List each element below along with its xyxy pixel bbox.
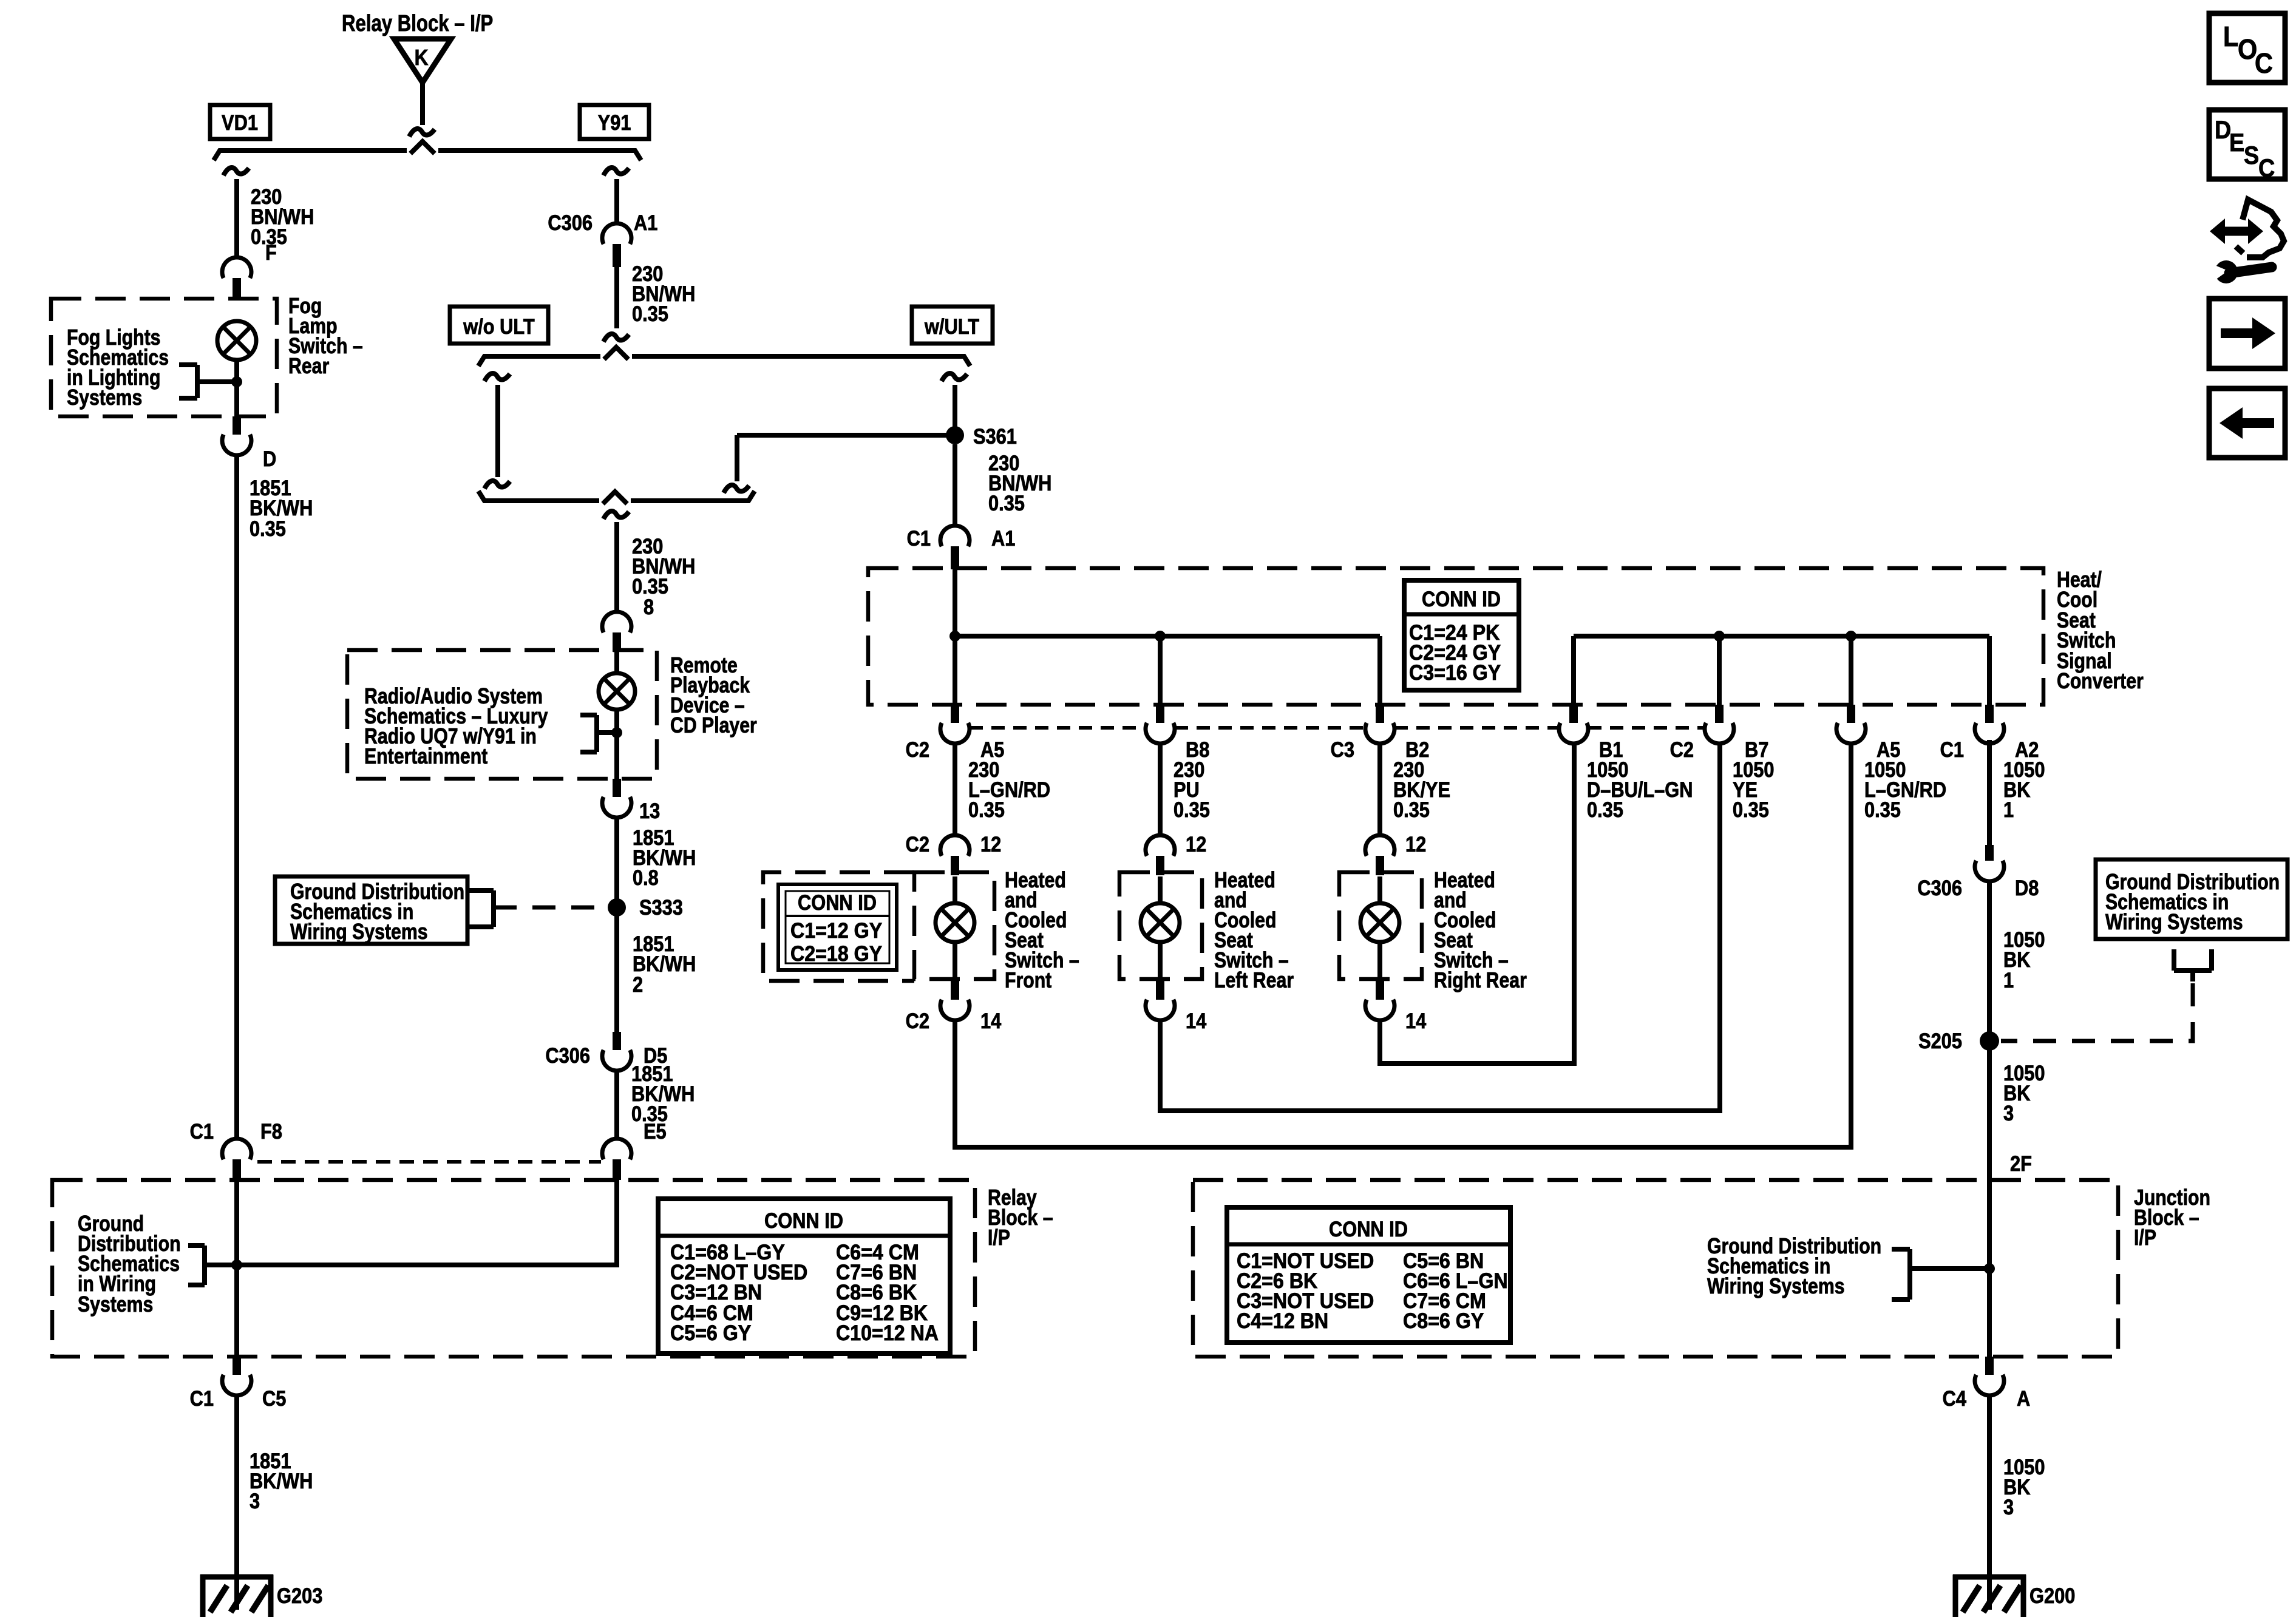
svg-text:Relay Block – I/P: Relay Block – I/P bbox=[342, 11, 493, 36]
svg-text:3: 3 bbox=[2003, 1101, 2014, 1125]
connector C306/D8 pin bbox=[1985, 845, 1994, 861]
connector D arc bbox=[222, 435, 251, 455]
wire D5 to E5 bbox=[614, 1071, 619, 1137]
svg-text:C2=18 GY: C2=18 GY bbox=[790, 943, 882, 966]
connector C1/F8 arc bbox=[222, 1139, 251, 1159]
hook above wo-ULT bus bbox=[603, 334, 629, 342]
seat switch lamp Right Rear bbox=[1360, 903, 1399, 942]
connector C306/D8 arc bbox=[1975, 861, 2004, 881]
wire F8 inside relay block bbox=[234, 1180, 239, 1357]
svg-text:C5: C5 bbox=[262, 1386, 286, 1410]
wire Y91 branch down bbox=[614, 179, 619, 222]
svg-text:C: C bbox=[2255, 48, 2273, 80]
svg-text:13: 13 bbox=[639, 799, 660, 822]
hook VD1 branch bbox=[223, 168, 249, 175]
svg-text:0.8: 0.8 bbox=[633, 866, 659, 889]
svg-text:C3=12 BN: C3=12 BN bbox=[670, 1281, 762, 1305]
wire S361 branch left bbox=[737, 433, 955, 438]
merge bus w/o ULT bbox=[488, 498, 599, 503]
connector 12 arc bbox=[1365, 835, 1394, 856]
connector pin B8 (converter) bbox=[1156, 705, 1164, 723]
svg-text:0.35: 0.35 bbox=[632, 302, 668, 325]
heated seat switch box Front bbox=[914, 872, 994, 979]
connector E5 arc bbox=[602, 1139, 631, 1159]
junction block dashed box bbox=[1193, 1180, 2118, 1357]
wire into lamp Left Rear bbox=[1158, 876, 1163, 903]
svg-text:S205: S205 bbox=[1918, 1029, 1962, 1053]
svg-text:C8=6 BK: C8=6 BK bbox=[836, 1281, 917, 1305]
CONN ID table (relay) bbox=[658, 1199, 950, 1354]
svg-text:CD Player: CD Player bbox=[670, 714, 757, 738]
fog lamp indicator bbox=[217, 321, 256, 360]
fog lamp switch dashed box bbox=[51, 299, 277, 416]
connector 13 pin bbox=[613, 779, 621, 797]
svg-text:L: L bbox=[2223, 21, 2238, 53]
connector C306/D5 pin bbox=[613, 1032, 621, 1050]
svg-text:14: 14 bbox=[1405, 1009, 1427, 1032]
wire into lamp Right Rear bbox=[1377, 876, 1382, 903]
wire S361 down to C1/A1 bbox=[953, 444, 957, 524]
svg-text:C2: C2 bbox=[906, 832, 929, 856]
svg-text:E: E bbox=[2229, 129, 2244, 157]
svg-text:0.35: 0.35 bbox=[1733, 798, 1769, 821]
connector C4/A pin bbox=[1985, 1357, 1994, 1375]
svg-text:Y91: Y91 bbox=[598, 110, 631, 134]
icon arrow right bbox=[2209, 299, 2285, 368]
wire into CD lamp bbox=[614, 651, 619, 673]
svg-text:D8: D8 bbox=[2015, 876, 2039, 900]
CONN ID dashed box (switch) bbox=[763, 872, 914, 981]
svg-text:2: 2 bbox=[633, 972, 643, 996]
ground G203 bbox=[200, 1575, 273, 1580]
wire lamp to node bbox=[234, 360, 239, 416]
wire A to G200 bbox=[1987, 1395, 1992, 1610]
wire B7 drop bbox=[1717, 636, 1722, 705]
svg-text:Rear: Rear bbox=[288, 354, 329, 379]
reference bracket CD bbox=[594, 715, 599, 752]
svg-text:I/P: I/P bbox=[988, 1226, 1010, 1250]
splice S205 bbox=[1980, 1031, 1999, 1051]
wire B1 drop bbox=[1571, 636, 1576, 705]
svg-text:CONN ID: CONN ID bbox=[798, 890, 877, 914]
hook right w/ULT branch bbox=[942, 373, 967, 381]
svg-text:Systems: Systems bbox=[67, 386, 142, 410]
hook above merge bus right bbox=[724, 485, 749, 493]
svg-text:Wiring Systems: Wiring Systems bbox=[2105, 910, 2243, 935]
connector F pin bbox=[233, 278, 241, 300]
svg-text:C1: C1 bbox=[907, 526, 931, 550]
svg-text:12: 12 bbox=[1186, 832, 1206, 856]
wire to seat switch bbox=[1158, 744, 1163, 833]
svg-text:G200: G200 bbox=[2029, 1584, 2075, 1607]
junction dot fog switch bbox=[231, 376, 242, 387]
svg-text:C3: C3 bbox=[1331, 737, 1354, 761]
wire A5 drop bbox=[1849, 636, 1853, 705]
wire into lamp Front bbox=[953, 876, 957, 903]
svg-text:14: 14 bbox=[1186, 1009, 1207, 1032]
wire lamp to pin Left Rear bbox=[1158, 942, 1163, 979]
heated seat switch box Left Rear bbox=[1119, 872, 1202, 979]
svg-text:C2: C2 bbox=[906, 737, 929, 761]
left stub wire bbox=[495, 385, 500, 477]
svg-text:C2: C2 bbox=[1670, 737, 1694, 761]
wire left rear switch return bbox=[1160, 744, 1720, 1111]
connector 13 arc bbox=[602, 797, 631, 818]
svg-text:0.35: 0.35 bbox=[988, 491, 1025, 515]
connector C1/C5 arc bbox=[222, 1375, 251, 1395]
dotted line F8-E5 bbox=[257, 1160, 601, 1164]
svg-text:S: S bbox=[2244, 141, 2259, 169]
svg-text:Wiring Systems: Wiring Systems bbox=[1707, 1275, 1845, 1299]
connector C306/D5 arc bbox=[602, 1050, 631, 1071]
svg-text:Systems: Systems bbox=[78, 1293, 153, 1317]
connector 12 arc bbox=[1146, 835, 1175, 856]
svg-text:8: 8 bbox=[644, 595, 654, 619]
connector E5 pin bbox=[613, 1159, 621, 1180]
CD player lamp bbox=[599, 673, 635, 710]
hook left stub bottom bbox=[484, 481, 510, 489]
svg-text:C1=12 GY: C1=12 GY bbox=[790, 920, 882, 943]
wire B2 drop bbox=[1377, 636, 1382, 705]
relay block triangle K bbox=[394, 39, 451, 83]
wire C5 to G203 bbox=[234, 1395, 239, 1610]
reference bracket S333 bbox=[491, 890, 496, 927]
icon DESC bbox=[2209, 110, 2285, 179]
svg-text:A: A bbox=[2017, 1386, 2030, 1410]
reference bracket fog bbox=[195, 365, 200, 398]
svg-text:D: D bbox=[263, 447, 276, 470]
connector C4/A arc bbox=[1975, 1375, 2004, 1395]
svg-text:w/ULT: w/ULT bbox=[924, 314, 979, 338]
svg-text:C: C bbox=[2258, 154, 2275, 182]
svg-text:A1: A1 bbox=[634, 211, 657, 234]
svg-text:C1: C1 bbox=[190, 1119, 214, 1143]
connector 8 pin bbox=[613, 632, 621, 652]
wire front switch return bbox=[955, 744, 1851, 1147]
bus w/o ULT split bbox=[488, 354, 600, 359]
svg-text:0.35: 0.35 bbox=[1587, 798, 1623, 821]
connector F arc bbox=[222, 257, 251, 278]
CONN ID table (junction) bbox=[1227, 1207, 1510, 1343]
connector pin A2 (converter) bbox=[1985, 705, 1994, 723]
wire B8 drop bbox=[1158, 636, 1163, 705]
svg-text:F8: F8 bbox=[260, 1119, 282, 1143]
svg-text:Right Rear: Right Rear bbox=[1434, 969, 1527, 993]
icon LOC bbox=[2209, 13, 2285, 83]
svg-text:12: 12 bbox=[980, 832, 1001, 856]
svg-text:CONN ID: CONN ID bbox=[1329, 1217, 1408, 1241]
svg-text:C10=12 NA: C10=12 NA bbox=[836, 1322, 939, 1346]
connector D pin bbox=[233, 416, 241, 435]
connector C1/C5 pin bbox=[233, 1357, 241, 1375]
wire CD lamp to node bbox=[614, 710, 619, 779]
icon vehicle wrench bbox=[2243, 200, 2284, 257]
connector C1/A1 arc bbox=[940, 526, 970, 546]
seat switch lamp Left Rear bbox=[1141, 903, 1180, 942]
svg-text:CONN ID: CONN ID bbox=[1422, 587, 1501, 611]
svg-text:C3=16 GY: C3=16 GY bbox=[1409, 662, 1501, 685]
connector 8 arc bbox=[602, 612, 631, 632]
ground G200 bbox=[1953, 1575, 2026, 1580]
svg-text:G203: G203 bbox=[277, 1584, 322, 1607]
svg-text:F: F bbox=[265, 240, 277, 264]
svg-text:K: K bbox=[415, 46, 429, 70]
svg-text:C306: C306 bbox=[548, 211, 593, 234]
svg-text:VD1: VD1 bbox=[222, 110, 258, 134]
radio dashed box bbox=[347, 650, 657, 779]
junction dot relay bbox=[231, 1259, 242, 1270]
connector 14 pin Right Rear bbox=[1376, 979, 1384, 1000]
icon arrow left bbox=[2209, 388, 2285, 458]
svg-text:S361: S361 bbox=[973, 424, 1017, 448]
reference bracket junction bbox=[1907, 1249, 1912, 1300]
svg-text:S333: S333 bbox=[639, 895, 683, 919]
wire E5 inside relay block bbox=[237, 1180, 617, 1265]
wire merge bus down to CD player bbox=[614, 522, 619, 610]
connector C1/F8 pin bbox=[233, 1159, 241, 1180]
svg-text:C4=12 BN: C4=12 BN bbox=[1237, 1310, 1328, 1334]
wire right rear switch return bbox=[1380, 744, 1574, 1063]
connector 14 pin Left Rear bbox=[1156, 979, 1164, 1000]
svg-text:0.35: 0.35 bbox=[1393, 798, 1430, 821]
hook left stub top bbox=[484, 373, 510, 381]
svg-text:0.35: 0.35 bbox=[1864, 798, 1901, 821]
connector pin A5 (converter) bbox=[1847, 705, 1855, 723]
ground distribution box (S333) bbox=[275, 876, 467, 944]
wire 2F inside junction block bbox=[1987, 1180, 1992, 1357]
svg-text:C306: C306 bbox=[545, 1043, 590, 1067]
splice S333 bbox=[608, 898, 626, 917]
connector pin A5 (converter) bbox=[951, 705, 959, 723]
box w/o ULT bbox=[450, 307, 548, 344]
wire from K to bus bbox=[420, 81, 425, 125]
svg-text:14: 14 bbox=[980, 1009, 1002, 1032]
connector box VD1 bbox=[210, 105, 270, 139]
svg-text:1: 1 bbox=[2003, 798, 2014, 821]
relay block dashed box bbox=[52, 1180, 975, 1357]
svg-text:Left Rear: Left Rear bbox=[1214, 969, 1294, 993]
connector pin B7 (converter) bbox=[1715, 705, 1724, 723]
wire A2 down bbox=[1987, 740, 1992, 845]
svg-text:2F: 2F bbox=[2010, 1151, 2032, 1175]
CONN ID table (switch) bbox=[778, 884, 897, 970]
bracket under box bbox=[2172, 949, 2176, 971]
connector C306/A1 pin bbox=[613, 244, 621, 267]
reference bracket relay bbox=[202, 1246, 207, 1285]
svg-text:12: 12 bbox=[1405, 832, 1426, 856]
wire lamp to pin Front bbox=[953, 942, 957, 979]
svg-text:Wiring Systems: Wiring Systems bbox=[290, 920, 428, 944]
wire A1 into converter bbox=[953, 569, 957, 705]
svg-text:w/o ULT: w/o ULT bbox=[463, 314, 534, 338]
svg-text:C306: C306 bbox=[1917, 876, 1962, 900]
svg-text:C8=6 GY: C8=6 GY bbox=[1403, 1310, 1484, 1334]
wire D8 to S205 bbox=[1987, 881, 1992, 1180]
svg-text:C1: C1 bbox=[1940, 737, 1964, 761]
bus line VD1-Y91 bbox=[223, 148, 407, 153]
svg-text:C4: C4 bbox=[1943, 1386, 1967, 1410]
wire to seat switch bbox=[953, 744, 957, 833]
dotted connector row line bbox=[970, 726, 1146, 730]
wire A2 drop bbox=[1987, 636, 1992, 705]
seat switch lamp Front bbox=[936, 903, 974, 942]
splice S361 bbox=[946, 426, 964, 444]
svg-text:0.35: 0.35 bbox=[250, 517, 286, 540]
svg-text:0.35: 0.35 bbox=[1173, 798, 1210, 821]
internal bus A1-B8-B2 bbox=[955, 634, 1380, 639]
box w/ULT bbox=[912, 307, 993, 344]
wire w/ULT branch to S361 bbox=[953, 385, 957, 435]
svg-text:3: 3 bbox=[2003, 1495, 2014, 1519]
svg-text:C2: C2 bbox=[906, 1009, 929, 1032]
wire A1 to w/o ULT bus bbox=[614, 267, 619, 328]
CONN ID table (converter) bbox=[1404, 580, 1519, 690]
ground distribution box (S205) bbox=[2096, 859, 2288, 939]
connector C306/A1 arc bbox=[602, 223, 631, 244]
connector pin B1 (converter) bbox=[1569, 705, 1578, 723]
connector pin B2 (converter) bbox=[1376, 705, 1384, 723]
svg-text:Entertainment: Entertainment bbox=[364, 745, 487, 769]
wire to seat switch bbox=[1377, 744, 1382, 833]
svg-text:1: 1 bbox=[2003, 968, 2014, 992]
svg-text:Converter: Converter bbox=[2057, 670, 2144, 694]
internal bus B1-B7-A5-A2 bbox=[1574, 634, 1989, 639]
svg-text:C1: C1 bbox=[190, 1386, 214, 1410]
connector 12 arc bbox=[940, 835, 970, 856]
svg-text:Front: Front bbox=[1005, 969, 1051, 993]
svg-text:E5: E5 bbox=[644, 1119, 667, 1143]
svg-text:0.35: 0.35 bbox=[968, 798, 1005, 821]
wire 13 to C306/D5 bbox=[614, 818, 619, 1032]
svg-text:3: 3 bbox=[250, 1489, 260, 1513]
junction dot junction block bbox=[1984, 1263, 1995, 1274]
svg-text:CONN ID: CONN ID bbox=[764, 1209, 843, 1232]
dashed lead to S333 bbox=[494, 906, 607, 910]
wire VD1 branch down bbox=[234, 179, 239, 256]
hook at K wire end bbox=[409, 129, 435, 137]
svg-text:C5=6 GY: C5=6 GY bbox=[670, 1322, 751, 1346]
wire lamp to pin Right Rear bbox=[1377, 942, 1382, 979]
svg-text:A1: A1 bbox=[991, 526, 1015, 550]
wire D to C1/F8 bbox=[234, 455, 239, 1137]
connector C1/A1 pin bbox=[951, 546, 959, 569]
hook Y91 branch bbox=[603, 168, 629, 175]
heated seat switch box Right Rear bbox=[1339, 872, 1422, 979]
connector box Y91 bbox=[580, 105, 649, 139]
svg-text:I/P: I/P bbox=[2134, 1226, 2156, 1250]
dashed link S205 bbox=[2001, 983, 2193, 1041]
hook below merge bus bbox=[603, 511, 629, 519]
junction dot CD bbox=[611, 727, 622, 738]
heat/cool seat switch signal converter dashed box bbox=[868, 568, 2043, 705]
connector 14 pin Front bbox=[951, 979, 959, 1000]
